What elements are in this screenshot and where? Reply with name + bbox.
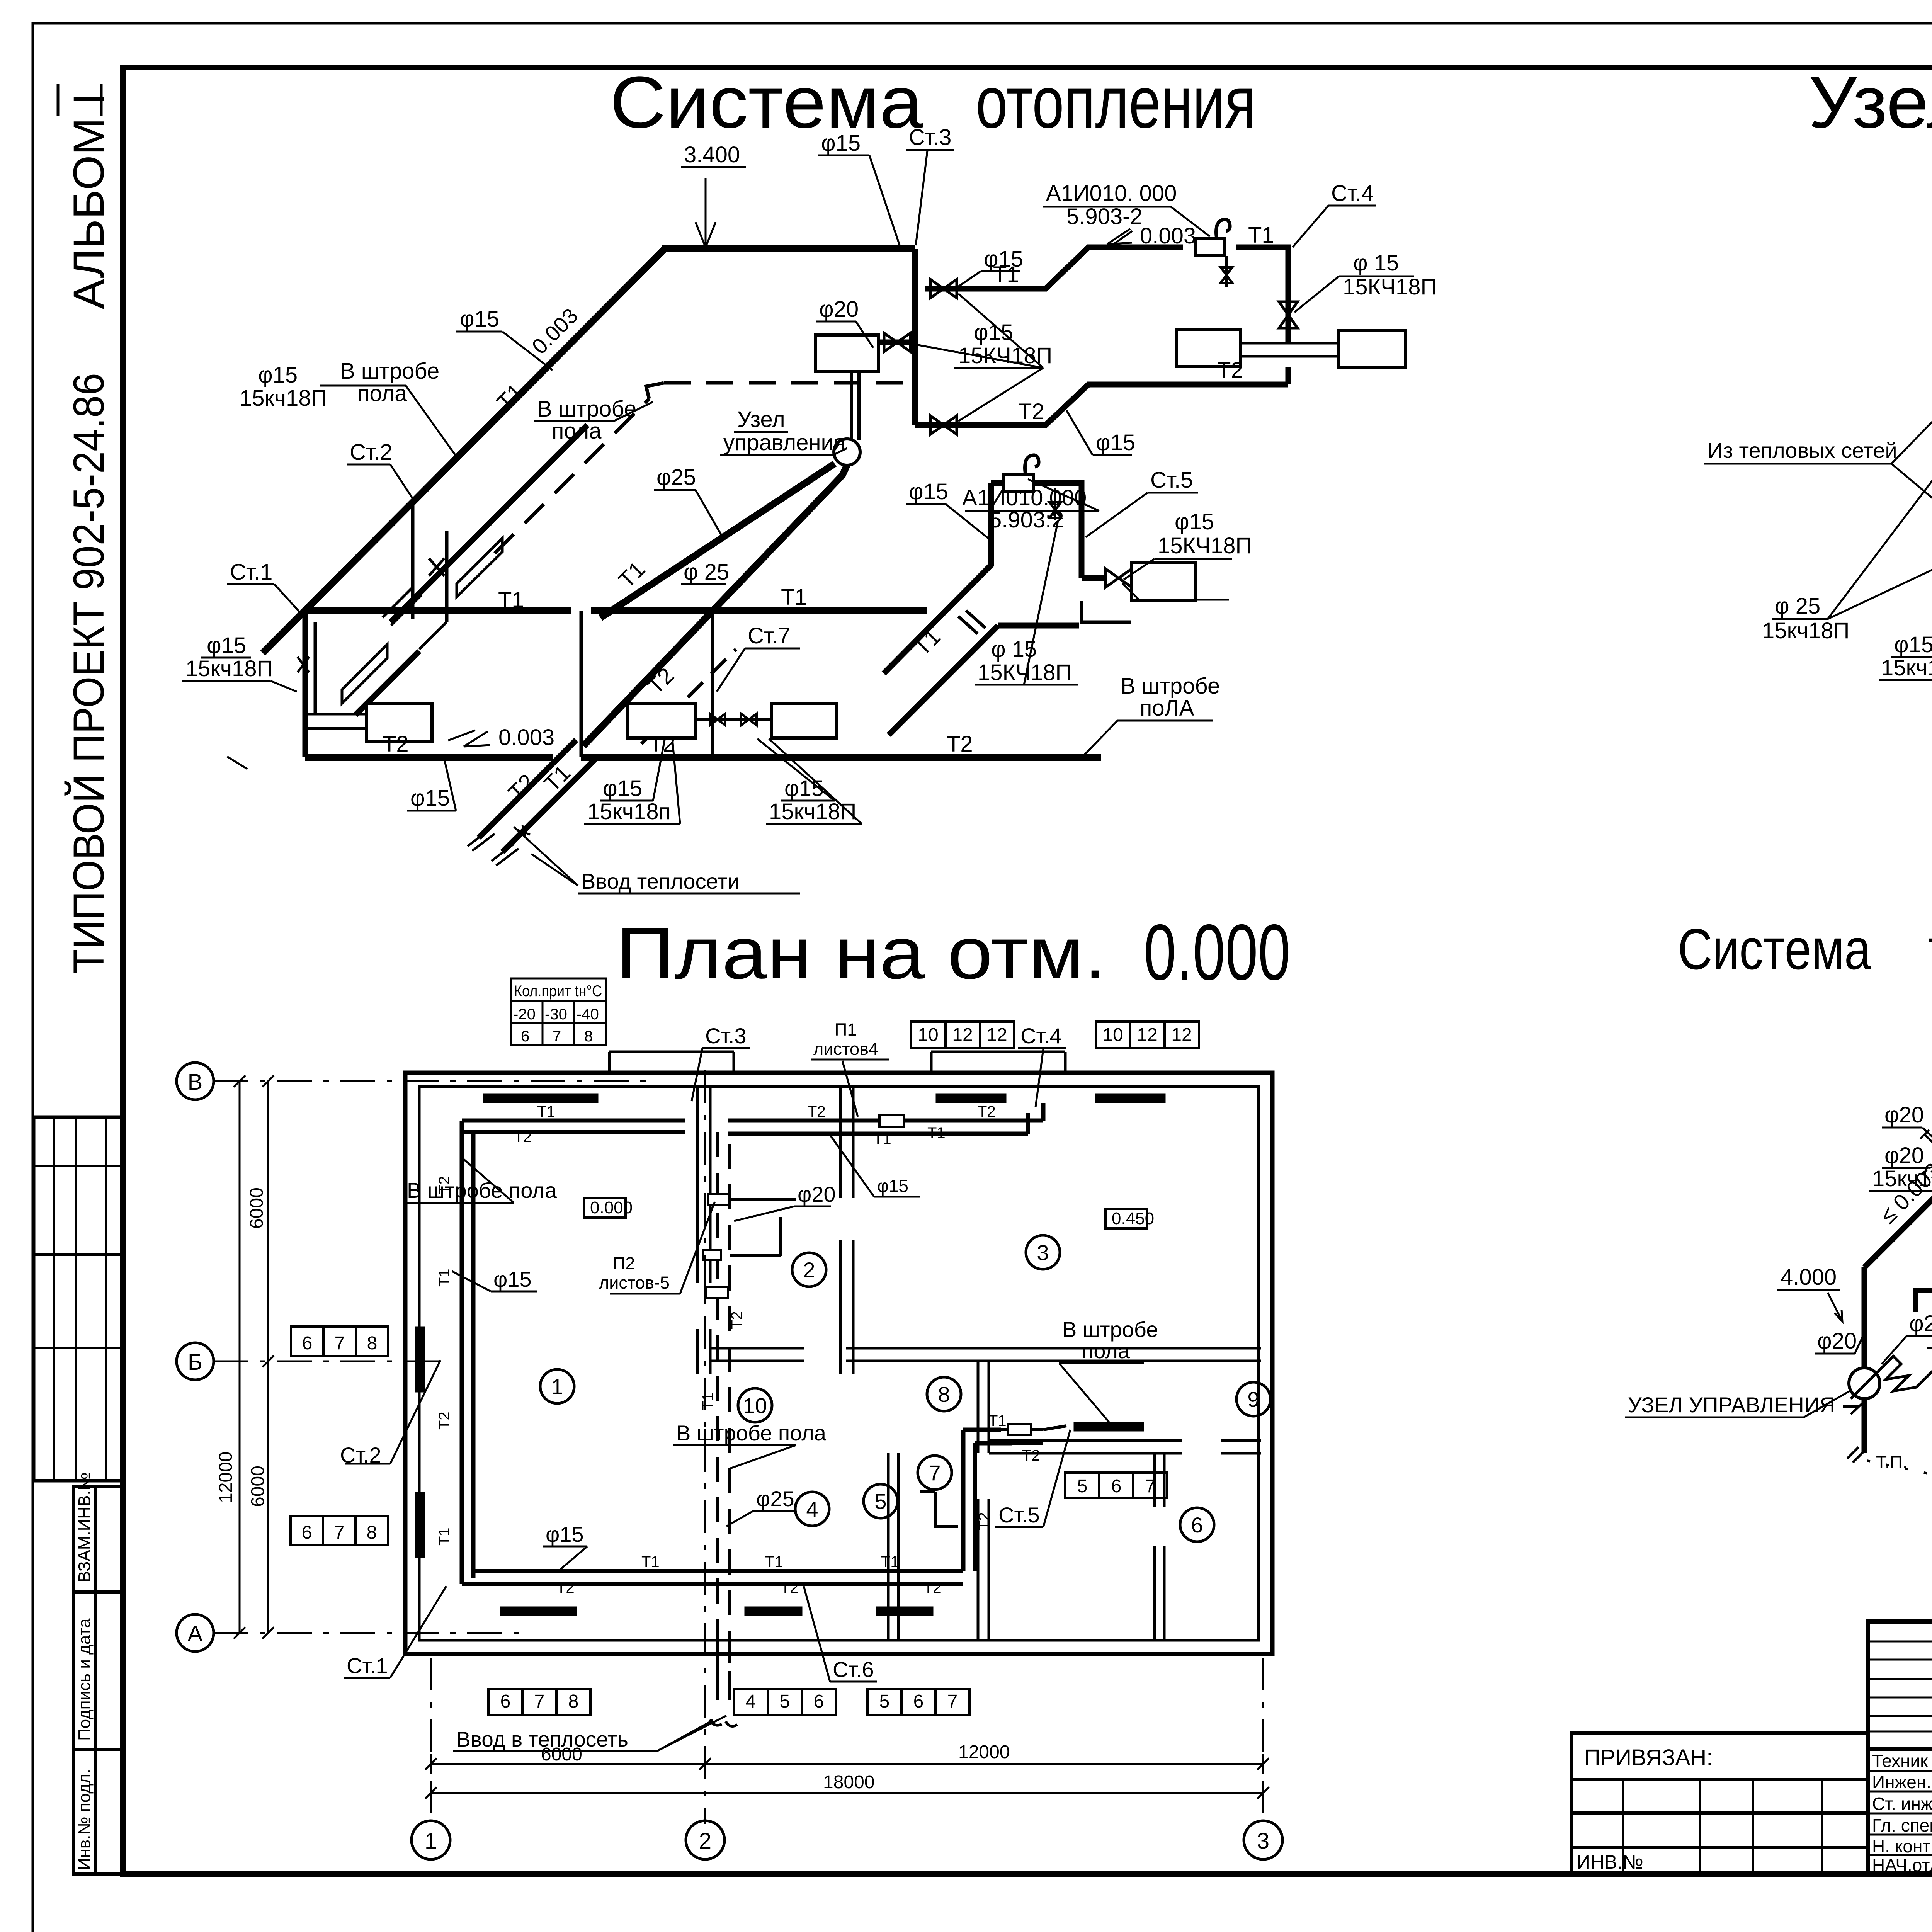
valve to radiator St.5 bbox=[1105, 569, 1132, 587]
svg-text:15КЧ18П: 15КЧ18П bbox=[1343, 274, 1437, 299]
small fitting on branch bbox=[879, 1115, 904, 1127]
svg-text:ПРИВЯЗАН:: ПРИВЯЗАН: bbox=[1584, 1745, 1713, 1770]
svg-text:1: 1 bbox=[551, 1374, 563, 1399]
heat main inlet double diagonal bbox=[479, 740, 598, 852]
valve T2 branch bbox=[930, 416, 957, 434]
svg-text:12: 12 bbox=[1137, 1025, 1157, 1045]
svg-text:3: 3 bbox=[1037, 1240, 1049, 1265]
radiator St.1 links bbox=[305, 714, 366, 728]
pipe to control unit from St.3 bbox=[879, 340, 915, 345]
staff rows bbox=[1872, 1751, 1932, 1875]
svg-text:12: 12 bbox=[952, 1025, 973, 1045]
svg-text:Т2: Т2 bbox=[947, 731, 973, 757]
radiator bars top wall bbox=[483, 1094, 598, 1103]
radiator bar room8 bbox=[1074, 1422, 1144, 1431]
svg-text:УЗЕЛ УПРАВЛЕНИЯ: УЗЕЛ УПРАВЛЕНИЯ bbox=[1628, 1393, 1835, 1417]
branch room 8 / St.5 bbox=[963, 1430, 1012, 1571]
svg-text:2: 2 bbox=[803, 1258, 815, 1282]
svg-text:15кч18П: 15кч18П bbox=[1881, 655, 1932, 680]
pipe T2 return from St.4 bbox=[915, 367, 1288, 425]
svg-text:15кч18п: 15кч18п bbox=[587, 799, 671, 824]
svg-text:пола: пола bbox=[552, 418, 602, 444]
svg-text:5: 5 bbox=[1077, 1476, 1088, 1497]
svg-text:Ст.3: Ст.3 bbox=[909, 125, 951, 150]
svg-text:теплоснабжения: теплоснабжения bbox=[1928, 917, 1932, 981]
axis circle 3 bbox=[1244, 1821, 1282, 1859]
svg-text:φ20: φ20 bbox=[1817, 1328, 1857, 1354]
svg-text:Т1: Т1 bbox=[881, 1553, 899, 1570]
svg-text:φ 15: φ 15 bbox=[1353, 250, 1399, 276]
control unit circle bbox=[834, 439, 860, 465]
svg-text:3: 3 bbox=[1257, 1828, 1269, 1854]
svg-text:В штробе: В штробе bbox=[1121, 673, 1220, 699]
svg-text:Ст.4: Ст.4 bbox=[1331, 181, 1374, 206]
main T1 diagonal bbox=[1864, 1188, 1932, 1267]
link with valves bbox=[696, 718, 771, 721]
svg-text:Т2: Т2 bbox=[781, 1579, 799, 1596]
svg-text:12: 12 bbox=[1171, 1025, 1192, 1045]
radiator link pipes bbox=[1241, 343, 1339, 356]
sidebar lower stamp boxes bbox=[73, 1486, 124, 1874]
svg-text:А: А bbox=[188, 1621, 203, 1646]
svg-text:Т1: Т1 bbox=[993, 262, 1019, 287]
svg-text:НАЧ.отд.: НАЧ.отд. bbox=[1872, 1855, 1932, 1875]
svg-text:В штробе пола: В штробе пола bbox=[407, 1178, 557, 1202]
svg-text:Т2: Т2 bbox=[728, 1311, 745, 1329]
svg-text:Инв.№ подл.: Инв.№ подл. bbox=[75, 1769, 94, 1870]
svg-text:4: 4 bbox=[746, 1691, 756, 1712]
plan pointers bbox=[344, 1048, 1144, 1751]
svg-text:0.000: 0.000 bbox=[590, 1198, 633, 1217]
room7 stub bbox=[920, 1492, 958, 1526]
svg-text:6000: 6000 bbox=[541, 1744, 582, 1765]
dotted guide line lower bbox=[1867, 1461, 1932, 1532]
riser St.1 T2 bbox=[314, 622, 317, 714]
svg-text:Т1: Т1 bbox=[436, 1527, 453, 1546]
svg-text:5.903-2: 5.903-2 bbox=[1066, 204, 1143, 229]
svg-text:Техник: Техник bbox=[1872, 1751, 1928, 1771]
svg-text:φ15: φ15 bbox=[258, 362, 298, 388]
small fitting room8 bbox=[1008, 1424, 1031, 1435]
svg-text:φ 25: φ 25 bbox=[684, 560, 729, 585]
svg-text:АЛЬБОМ I: АЛЬБОМ I bbox=[65, 93, 113, 309]
svg-text:8: 8 bbox=[367, 1333, 378, 1354]
teplo pointers bbox=[1625, 1102, 1932, 1529]
axis circle Б bbox=[177, 1343, 214, 1380]
svg-text:Ст.4: Ст.4 bbox=[1020, 1024, 1062, 1048]
building inner wall bbox=[419, 1087, 1259, 1640]
entrance canopies above top wall bbox=[609, 1052, 1065, 1073]
svg-text:Ст.1: Ст.1 bbox=[230, 560, 272, 585]
svg-text:0.000: 0.000 bbox=[1144, 908, 1291, 997]
svg-text:Ст.3: Ст.3 bbox=[705, 1024, 747, 1048]
plan labels bbox=[188, 1070, 1269, 1854]
svg-text:Кол.прит tн°С: Кол.прит tн°С bbox=[514, 983, 602, 1000]
svg-text:6: 6 bbox=[302, 1333, 313, 1354]
svg-text:φ25: φ25 bbox=[656, 465, 696, 490]
radiator St.5 bbox=[1131, 562, 1196, 601]
svg-text:12000: 12000 bbox=[958, 1742, 1010, 1762]
St.2 risers bbox=[413, 503, 447, 622]
pipe T1 top horizontal bbox=[662, 245, 915, 252]
svg-text:пола: пола bbox=[1082, 1338, 1130, 1363]
svg-text:φ15: φ15 bbox=[410, 786, 450, 811]
svg-text:листов4: листов4 bbox=[813, 1039, 878, 1059]
teplo labels bbox=[1628, 1058, 1932, 1529]
svg-text:Ст.5: Ст.5 bbox=[1150, 468, 1193, 493]
svg-text:-40: -40 bbox=[577, 1006, 599, 1023]
svg-text:Т1: Т1 bbox=[699, 1392, 716, 1410]
svg-text:Т1: Т1 bbox=[781, 585, 807, 610]
control unit box bbox=[815, 335, 879, 372]
partition h2 room6 bbox=[989, 1440, 1261, 1453]
pipe up from circle bbox=[1862, 1267, 1867, 1368]
svg-text:φ20: φ20 bbox=[1884, 1102, 1924, 1128]
svg-text:Т2: Т2 bbox=[1018, 399, 1044, 424]
pipe T1 main diagonal bbox=[263, 249, 665, 653]
svg-text:0.003: 0.003 bbox=[1140, 223, 1196, 248]
T.P. end ticks bbox=[1847, 1447, 1864, 1463]
svg-text:φ20: φ20 bbox=[798, 1182, 836, 1206]
svg-text:листов-5: листов-5 bbox=[599, 1273, 670, 1293]
inlet continuation below building bbox=[718, 1640, 730, 1712]
svg-text:Узел: Узел bbox=[1808, 61, 1932, 143]
svg-text:8: 8 bbox=[568, 1691, 579, 1712]
svg-text:10: 10 bbox=[1102, 1025, 1123, 1045]
svg-text:φ20: φ20 bbox=[819, 297, 859, 322]
vertical dimension lines bbox=[240, 1081, 268, 1633]
svg-text:Т1: Т1 bbox=[436, 1269, 453, 1287]
svg-text:0.003: 0.003 bbox=[498, 725, 554, 750]
apartment boxes sides/bottom bbox=[291, 1327, 1167, 1715]
svg-text:Ввод теплосети: Ввод теплосети bbox=[581, 869, 740, 893]
partition v3 bbox=[978, 1361, 989, 1640]
svg-text:Ст.6: Ст.6 bbox=[833, 1657, 874, 1682]
svg-text:Т1: Т1 bbox=[927, 1124, 946, 1141]
control unit drop pipes bbox=[852, 372, 859, 440]
svg-text:7: 7 bbox=[947, 1691, 958, 1712]
svg-text:6: 6 bbox=[913, 1691, 924, 1712]
radiator mid bbox=[628, 703, 696, 738]
svg-text:Инжен.: Инжен. bbox=[1872, 1772, 1931, 1792]
svg-text:φ15: φ15 bbox=[460, 306, 499, 332]
T2 diagonal St.5 bbox=[889, 626, 1079, 735]
outside temp table bbox=[511, 978, 606, 1045]
svg-text:9: 9 bbox=[1247, 1387, 1259, 1412]
svg-text:А1И010. 000: А1И010. 000 bbox=[1046, 181, 1177, 206]
svg-text:φ15: φ15 bbox=[1175, 509, 1214, 534]
svg-text:φ20: φ20 bbox=[1884, 1143, 1924, 1168]
svg-text:поЛА: поЛА bbox=[1140, 696, 1194, 721]
svg-text:Т2: Т2 bbox=[1022, 1447, 1040, 1464]
partition corridor bbox=[888, 1453, 898, 1640]
air collector St.5 bbox=[1004, 455, 1039, 492]
svg-text:Т2: Т2 bbox=[436, 1176, 453, 1194]
pipe below circle to T.P. bbox=[1862, 1399, 1867, 1453]
svg-text:отопления: отопления bbox=[976, 61, 1256, 143]
svg-text:15кч18П: 15кч18П bbox=[1872, 1166, 1932, 1191]
axis circle 1 bbox=[412, 1821, 450, 1859]
svg-text:15КЧ18П: 15КЧ18П bbox=[1158, 533, 1252, 558]
T2 from P2 down steps bbox=[1916, 1260, 1932, 1312]
svg-text:управления: управления bbox=[723, 430, 845, 455]
svg-text:Из тепловых сетей: Из тепловых сетей bbox=[1708, 438, 1897, 463]
svg-text:12: 12 bbox=[986, 1025, 1007, 1045]
svg-text:Т1: Т1 bbox=[641, 1553, 660, 1570]
pipe T2 diagonal from control unit bbox=[583, 465, 847, 746]
partition h1 bbox=[710, 1348, 1261, 1361]
St.5 T1 diagonal bbox=[884, 483, 1107, 673]
svg-text:Т1: Т1 bbox=[765, 1553, 783, 1570]
building outer wall bbox=[405, 1073, 1272, 1654]
svg-text:План на отм.: План на отм. bbox=[616, 912, 1107, 994]
riser fittings bbox=[708, 1194, 730, 1205]
svg-text:Т2: Т2 bbox=[514, 1128, 532, 1145]
left sidebar vertical project text bbox=[58, 84, 113, 974]
air collector St.4 bbox=[1195, 219, 1230, 256]
control unit circle bbox=[1849, 1368, 1880, 1399]
pipe T1 branch to St.4 bbox=[925, 247, 1288, 343]
svg-text:6: 6 bbox=[521, 1028, 529, 1045]
valve T1 branch bbox=[930, 279, 957, 298]
svg-text:Т2: Т2 bbox=[1217, 358, 1243, 383]
svg-text:4.000: 4.000 bbox=[1781, 1265, 1837, 1290]
short T2 diagonal at St.2 bbox=[355, 651, 419, 715]
svg-text:12000: 12000 bbox=[216, 1452, 236, 1503]
axis dash-dot lines bbox=[214, 1081, 657, 1633]
drain valve under air collector bbox=[1225, 256, 1228, 287]
svg-text:φ15: φ15 bbox=[207, 633, 246, 658]
second T1 diagonal bbox=[391, 425, 587, 622]
svg-text:18000: 18000 bbox=[823, 1772, 874, 1793]
svg-text:Т2: Т2 bbox=[383, 731, 409, 757]
svg-text:Т2: Т2 bbox=[808, 1103, 826, 1120]
svg-text:Ст.1: Ст.1 bbox=[347, 1653, 388, 1678]
pointers uzel bbox=[1704, 199, 1932, 722]
St.2 riser link diagonals bbox=[383, 587, 447, 649]
svg-text:7: 7 bbox=[534, 1691, 545, 1712]
partition v1 bbox=[697, 1087, 710, 1374]
small heater coil left bbox=[1851, 1356, 1932, 1399]
staff table grid bbox=[1868, 1622, 1932, 1874]
svg-text:5: 5 bbox=[879, 1691, 890, 1712]
svg-text:В штробе: В штробе bbox=[1062, 1317, 1158, 1342]
svg-text:Т2: Т2 bbox=[436, 1412, 453, 1430]
riser St.3 column bbox=[912, 249, 918, 425]
title block bbox=[1571, 1622, 1932, 1923]
radiator bars bottom wall bbox=[500, 1607, 577, 1616]
svg-text:6: 6 bbox=[814, 1691, 824, 1712]
St.2 tilted radiator high bbox=[457, 538, 502, 597]
svg-text:7: 7 bbox=[335, 1333, 345, 1354]
axis2 dashdot through building bbox=[704, 1070, 706, 1824]
svg-text:φ20: φ20 bbox=[1909, 1311, 1932, 1336]
left privyazan block bbox=[1571, 1733, 1868, 1874]
svg-text:Ст.2: Ст.2 bbox=[350, 440, 392, 465]
pipe T1 riser diagonal f25 bbox=[600, 464, 835, 618]
svg-text:8: 8 bbox=[584, 1028, 593, 1045]
bottom dim line 1 bbox=[431, 1754, 1263, 1774]
svg-text:Узел: Узел bbox=[737, 407, 785, 432]
mark 3.400 arrow bbox=[696, 178, 716, 247]
svg-text:φ15: φ15 bbox=[1894, 632, 1932, 657]
labels uzel bbox=[1708, 172, 1932, 721]
svg-text:8: 8 bbox=[367, 1522, 377, 1543]
heating loop room1: top pair bbox=[462, 1121, 685, 1132]
svg-text:Б: Б bbox=[188, 1350, 202, 1375]
svg-text:Т1: Т1 bbox=[1248, 223, 1274, 248]
label underlines / pointers bbox=[182, 150, 1414, 893]
svg-text:ТИПОВОЙ ПРОЕКТ 902-5-24.86: ТИПОВОЙ ПРОЕКТ 902-5-24.86 bbox=[65, 373, 113, 974]
svg-text:В: В bbox=[188, 1070, 203, 1095]
T1 tick bbox=[958, 611, 985, 634]
bottom dim line 2 bbox=[431, 1792, 1263, 1794]
axis circle B bbox=[177, 1063, 214, 1100]
sidebar upper stamp table bbox=[34, 1117, 124, 1481]
room number circles bbox=[540, 1235, 1270, 1542]
T2 from radiator St.5 bbox=[1082, 601, 1131, 622]
main risers dashed vertical bbox=[718, 1132, 730, 1685]
svg-text:Т2: Т2 bbox=[556, 1579, 575, 1596]
svg-text:Система: Система bbox=[1678, 917, 1871, 981]
drop at x1504 bbox=[580, 611, 583, 757]
right branch pair to St.4 bbox=[728, 1103, 1043, 1134]
svg-text:ВЗАМ.ИНВ.№: ВЗАМ.ИНВ.№ bbox=[75, 1472, 94, 1582]
svg-text:5: 5 bbox=[874, 1489, 886, 1514]
svg-text:П2: П2 bbox=[613, 1253, 635, 1273]
valve on St.4 riser bbox=[1279, 302, 1298, 328]
zigzag valve St.2 bbox=[429, 558, 444, 576]
svg-text:10: 10 bbox=[743, 1393, 767, 1418]
svg-text:Т1: Т1 bbox=[498, 587, 524, 612]
labels heating bbox=[185, 125, 1437, 893]
svg-text:Ст.7: Ст.7 bbox=[748, 623, 790, 648]
svg-text:10: 10 bbox=[918, 1025, 938, 1045]
svg-text:2: 2 bbox=[699, 1828, 711, 1854]
svg-text:7: 7 bbox=[929, 1461, 940, 1485]
inlet hatch marks bbox=[468, 829, 519, 866]
svg-text:6: 6 bbox=[500, 1691, 511, 1712]
svg-text:Т1: Т1 bbox=[873, 1130, 891, 1147]
svg-text:Т1: Т1 bbox=[537, 1103, 555, 1120]
svg-text:Н. контр.: Н. контр. bbox=[1872, 1836, 1932, 1856]
loop left pair bbox=[462, 1121, 473, 1584]
svg-text:7: 7 bbox=[334, 1522, 345, 1543]
riser St.1 bbox=[303, 611, 308, 757]
svg-text:ИНВ.№: ИНВ.№ bbox=[1577, 1851, 1643, 1873]
radiator bbox=[1177, 330, 1241, 366]
svg-text:6000: 6000 bbox=[247, 1187, 267, 1229]
svg-text:6000: 6000 bbox=[248, 1466, 268, 1507]
svg-text:φ15: φ15 bbox=[1096, 430, 1135, 455]
svg-text:φ15: φ15 bbox=[821, 131, 861, 156]
svg-text:φ15: φ15 bbox=[603, 776, 642, 801]
svg-text:Система: Система bbox=[610, 61, 923, 143]
radiator bars left wall bbox=[415, 1327, 425, 1392]
svg-text:3.400: 3.400 bbox=[684, 142, 740, 167]
svg-text:6: 6 bbox=[302, 1522, 312, 1543]
apartment number boxes top bbox=[911, 1022, 1199, 1048]
svg-text:4: 4 bbox=[806, 1497, 818, 1521]
svg-text:15кч18П: 15кч18П bbox=[769, 799, 856, 824]
svg-text:φ15: φ15 bbox=[493, 1267, 532, 1291]
svg-text:Ст. инж.: Ст. инж. bbox=[1872, 1794, 1932, 1814]
svg-text:В штробе: В штробе bbox=[340, 359, 439, 384]
pipe T2 bottom left bbox=[305, 754, 553, 761]
svg-text:Т.П.: Т.П. bbox=[1876, 1452, 1908, 1472]
radiator mid right bbox=[771, 703, 837, 738]
axis circle 2 bbox=[686, 1821, 724, 1859]
svg-text:Т2: Т2 bbox=[976, 1512, 993, 1530]
svg-text:Т2: Т2 bbox=[978, 1103, 996, 1120]
svg-text:φ25: φ25 bbox=[756, 1486, 794, 1511]
svg-text:Т1: Т1 bbox=[988, 1412, 1007, 1429]
drain valve bbox=[1054, 488, 1056, 520]
svg-text:Ст.5: Ст.5 bbox=[998, 1503, 1040, 1527]
svg-text:Т2: Т2 bbox=[923, 1579, 942, 1596]
pipe T2 bottom mid bbox=[581, 754, 1101, 761]
pipe T1 mid horizontal bbox=[305, 607, 927, 614]
svg-text:-30: -30 bbox=[545, 1006, 567, 1023]
svg-text:7: 7 bbox=[553, 1028, 561, 1045]
valve bbox=[884, 333, 910, 352]
svg-text:5: 5 bbox=[780, 1691, 790, 1712]
svg-text:φ 25: φ 25 bbox=[1775, 594, 1820, 619]
svg-text:15кч18П: 15кч18П bbox=[185, 656, 273, 681]
axis circle A bbox=[177, 1614, 214, 1651]
svg-text:8: 8 bbox=[938, 1382, 950, 1406]
loop bottom pair bbox=[462, 1571, 963, 1584]
svg-text:6: 6 bbox=[1111, 1476, 1122, 1497]
dashed T2 diagonal at St.7 bbox=[641, 649, 736, 744]
svg-text:φ15: φ15 bbox=[877, 1176, 908, 1196]
svg-text:В штробе пола: В штробе пола bbox=[676, 1421, 827, 1445]
riser St.7 bbox=[711, 611, 714, 757]
St.2 tilted radiator low bbox=[342, 645, 387, 703]
partition v4 room6 bbox=[1155, 1453, 1164, 1640]
svg-text:Подпись и дата: Подпись и дата bbox=[75, 1618, 94, 1741]
dashed T2 to St.3 bbox=[495, 383, 915, 553]
svg-text:φ15: φ15 bbox=[546, 1522, 584, 1546]
svg-text:φ15: φ15 bbox=[909, 479, 948, 504]
svg-text:6: 6 bbox=[1191, 1513, 1203, 1537]
branch into room2 bbox=[730, 1199, 796, 1256]
svg-text:П1: П1 bbox=[835, 1020, 857, 1039]
svg-text:7: 7 bbox=[1145, 1476, 1156, 1497]
svg-text:15кч18П: 15кч18П bbox=[240, 386, 327, 411]
partition v2 bbox=[840, 1087, 853, 1374]
radiator bbox=[1339, 330, 1406, 367]
svg-text:-20: -20 bbox=[513, 1006, 536, 1023]
svg-text:0.450: 0.450 bbox=[1112, 1209, 1154, 1228]
svg-text:Гл. спец.: Гл. спец. bbox=[1872, 1815, 1932, 1835]
svg-text:15кч18П: 15кч18П bbox=[1762, 618, 1849, 643]
elevation boxes bbox=[584, 1198, 626, 1218]
radiator St.1 bbox=[366, 703, 432, 742]
svg-text:1: 1 bbox=[425, 1828, 437, 1854]
